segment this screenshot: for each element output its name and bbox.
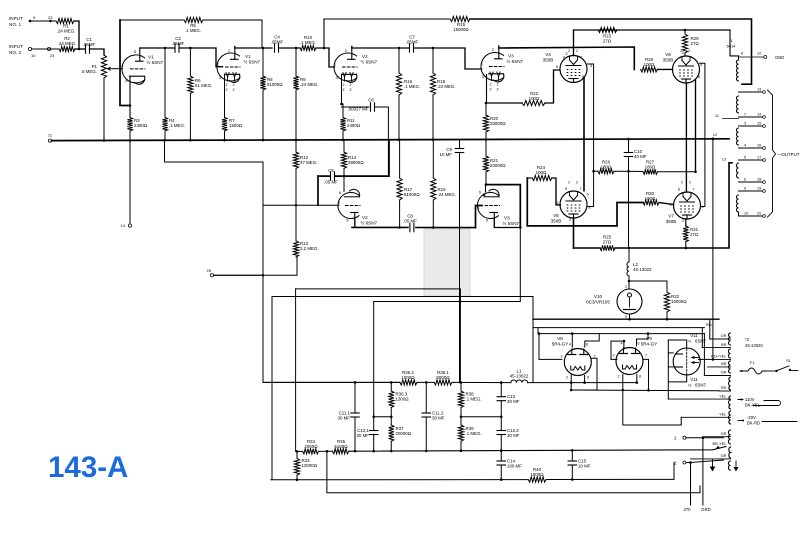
svg-text:V2: V2: [362, 54, 368, 59]
svg-text:RD: RD: [706, 322, 712, 327]
resistor R36.3: [390, 382, 392, 391]
svg-text:V4: V4: [545, 52, 551, 57]
wire C4 to R10: [279, 47, 300, 49]
svg-text:V2: V2: [362, 215, 368, 220]
wire bus2 left: [271, 479, 528, 481]
wire V8 pin6 up: [585, 334, 599, 347]
svg-text:51000Ω: 51000Ω: [404, 192, 420, 197]
svg-text:4: 4: [477, 206, 479, 210]
svg-text:100Ω: 100Ω: [645, 196, 656, 201]
svg-text:8: 8: [698, 75, 700, 79]
svg-text:3: 3: [613, 354, 615, 358]
node R8 top: [262, 47, 265, 50]
resistor R35: [333, 449, 349, 454]
capacitor C1: [85, 45, 87, 53]
wire R36.2-R36.1: [417, 381, 434, 383]
svg-text:13: 13: [722, 158, 726, 162]
wire C5 horizontal: [318, 175, 330, 177]
wire V11 cathode right: [699, 358, 714, 360]
wire term2a: [686, 437, 724, 439]
svg-text:½ 6SN7: ½ 6SN7: [503, 220, 520, 226]
bus junction dots: [103, 139, 106, 142]
capacitor C10: [624, 152, 632, 154]
svg-text:350B: 350B: [551, 219, 562, 224]
vacuum tube V10: [617, 289, 642, 314]
wire C12.2 down: [500, 435, 502, 451]
wire to R32: [629, 281, 667, 292]
terminal 25: [210, 274, 213, 277]
vacuum tube V4: [560, 56, 587, 83]
wire V11 stub1: [668, 352, 673, 354]
P1 wiper arrow: [108, 67, 113, 70]
node 571 390: [570, 389, 573, 392]
svg-text:Z: Z: [232, 88, 234, 92]
terminal 2a: [683, 436, 686, 439]
wire psu outer left: [532, 319, 534, 382]
wire y319 line: [533, 318, 719, 320]
node R17 bottom: [398, 226, 401, 229]
wire P1 wiper to V1 grid: [113, 68, 123, 70]
node 355 382: [354, 381, 357, 384]
wire y302 feeder: [373, 302, 375, 415]
svg-text:51000Ω: 51000Ω: [267, 82, 283, 87]
svg-text:.05MF: .05MF: [406, 40, 419, 45]
svg-text:8: 8: [565, 187, 567, 191]
svg-text:½ 6SN7: ½ 6SN7: [361, 59, 378, 65]
svg-text:3: 3: [744, 122, 746, 126]
resistor R29: [684, 30, 686, 34]
wire R3 to bus: [129, 131, 131, 141]
svg-text:2400Ω: 2400Ω: [347, 123, 360, 128]
svg-text:10: 10: [31, 53, 36, 58]
svg-text:2: 2: [566, 376, 568, 380]
wire y30 line: [574, 29, 731, 31]
wire y327 line: [533, 327, 704, 329]
svg-text:5: 5: [134, 50, 136, 54]
svg-text:2: 2: [618, 375, 620, 379]
svg-text:5: 5: [625, 315, 627, 319]
svg-text:5100Ω: 5100Ω: [334, 444, 347, 449]
svg-text:GND: GND: [775, 55, 784, 60]
wire 461-501 link: [461, 416, 501, 418]
capacitor C9 column: [459, 141, 461, 149]
node V3b cathode: [483, 194, 486, 197]
vacuum tube V3 lower half: [477, 189, 499, 219]
node C6 tap: [340, 103, 343, 106]
svg-text:40 MF: 40 MF: [634, 154, 647, 159]
wire psu second top: [537, 328, 539, 334]
svg-text:C5: C5: [328, 168, 334, 173]
svg-text:2: 2: [226, 83, 228, 87]
wire V1b cathode down: [224, 74, 226, 117]
capacitor C6: [370, 103, 372, 111]
wire C7 to V3a grid: [414, 48, 482, 69]
svg-text:18: 18: [757, 178, 761, 182]
svg-text:30 MF: 30 MF: [338, 416, 351, 421]
node L2 bottom: [628, 280, 631, 283]
svg-text:3: 3: [219, 76, 221, 80]
svg-text:5: 5: [486, 219, 488, 223]
svg-text:1000Ω: 1000Ω: [401, 375, 414, 380]
svg-text:½ 6SN7: ½ 6SN7: [244, 59, 261, 65]
wire C5 to riser: [335, 141, 389, 177]
svg-text:2: 2: [689, 181, 691, 185]
node rdyel: [712, 358, 715, 361]
svg-text:OR: OR: [721, 370, 727, 375]
wire R26-R27: [614, 170, 643, 172]
wire cathode to C6: [342, 106, 370, 108]
node x263 275: [262, 274, 265, 277]
svg-text:F1: F1: [750, 360, 755, 365]
node R16 top: [398, 47, 401, 50]
node 539 333: [538, 332, 541, 335]
vacuum tube V5: [560, 191, 587, 218]
wire R24 riser: [527, 178, 643, 226]
node 648 390: [647, 389, 650, 392]
wire R2 to C1: [75, 48, 85, 50]
resistor R20: [485, 103, 487, 115]
node V3a cathode R20: [485, 102, 488, 105]
svg-text:.24 MEG.: .24 MEG.: [58, 41, 77, 46]
svg-text:.1 MEG.: .1 MEG.: [466, 431, 482, 436]
svg-text:2: 2: [497, 83, 499, 87]
svg-text:6SN7: 6SN7: [695, 383, 707, 388]
resistor R38: [460, 383, 462, 392]
svg-text:39000Ω: 39000Ω: [348, 160, 364, 165]
svg-text:V7: V7: [668, 214, 674, 219]
svg-text:5014: 5014: [727, 44, 737, 49]
resistor R30: [643, 200, 659, 205]
resistor R31: [685, 219, 687, 226]
svg-text:5: 5: [346, 219, 348, 223]
svg-text:350B: 350B: [543, 58, 554, 63]
resistor R12: [295, 141, 297, 152]
wire V2a cathode down: [341, 74, 343, 104]
svg-text:BR: BR: [721, 361, 727, 366]
resistor R34: [303, 449, 319, 454]
svg-text:2: 2: [681, 181, 683, 185]
svg-text:30 MF: 30 MF: [357, 433, 370, 438]
svg-text:8: 8: [587, 376, 589, 380]
svg-text:2: 2: [228, 49, 230, 53]
svg-text:3: 3: [561, 355, 563, 359]
svg-text:100Ω: 100Ω: [529, 96, 540, 101]
svg-text:27Ω: 27Ω: [690, 232, 698, 237]
svg-text:.1 MEG.: .1 MEG.: [404, 84, 420, 89]
svg-text:V10: V10: [594, 294, 603, 299]
svg-text:V1: V1: [245, 54, 251, 59]
svg-text:4: 4: [702, 205, 704, 209]
inductor L1: [511, 380, 528, 383]
wire C10 down: [628, 157, 630, 249]
svg-text:.24 MEG.: .24 MEG.: [300, 82, 319, 87]
vacuum tube V11: [673, 348, 700, 375]
svg-text:20: 20: [757, 212, 761, 216]
svg-text:.5 MEG.: .5 MEG.: [81, 69, 97, 74]
T1 winding ends: [738, 56, 740, 60]
svg-text:9: 9: [744, 187, 746, 191]
node cathode junction: [129, 104, 132, 107]
vacuum tube V9: [616, 348, 643, 375]
resistor R36.1: [434, 380, 452, 385]
wire P1 bottom to bus: [103, 78, 105, 141]
capacitor C12.1: [370, 430, 378, 432]
svg-text:7: 7: [580, 56, 582, 60]
T1 tap 8 line: [739, 56, 764, 58]
resistor R7: [222, 118, 227, 132]
svg-text:12000Ω: 12000Ω: [302, 463, 318, 468]
node R19 bottom: [432, 226, 435, 229]
svg-text:.05 MF: .05 MF: [324, 180, 338, 185]
wire R26 lead: [594, 170, 598, 172]
svg-text:6: 6: [339, 191, 341, 195]
node feedback R15 join: [323, 47, 326, 50]
vacuum tube V8: [564, 349, 591, 376]
svg-text:½ 6SN7: ½ 6SN7: [361, 220, 378, 226]
svg-text:INPUT: INPUT: [9, 16, 23, 21]
wire C1 to P1: [90, 49, 105, 55]
potentiometer P1: [101, 55, 106, 78]
node C15 bottom: [571, 478, 574, 481]
capacitor C12.2: [497, 430, 505, 432]
svg-text:NO. 1: NO. 1: [9, 22, 21, 27]
svg-text:2400Ω: 2400Ω: [134, 123, 147, 128]
node 426 382: [425, 381, 428, 384]
wire V3b cathode up: [485, 186, 487, 192]
svg-text:6: 6: [587, 193, 589, 197]
T1 output bracket: [768, 90, 776, 217]
svg-text:45-13022: 45-13022: [510, 374, 529, 379]
wire x295 column: [295, 289, 297, 452]
resistor R27: [643, 169, 658, 174]
svg-text:110V: 110V: [745, 397, 755, 402]
svg-text:4: 4: [589, 206, 591, 210]
svg-text:20000Ω: 20000Ω: [396, 431, 412, 436]
wire x702 down: [702, 438, 704, 505]
wire V1b plate line: [235, 47, 272, 49]
capacitor C11.1: [351, 412, 359, 414]
resistor R21: [483, 156, 488, 172]
wire R8 to bus and below: [262, 90, 264, 141]
wire OR tap riser: [703, 334, 705, 376]
node R14 C5: [343, 175, 346, 178]
svg-text:S1: S1: [786, 358, 792, 363]
svg-text:7: 7: [645, 354, 647, 358]
svg-text:3: 3: [482, 75, 484, 79]
wire input2: [32, 48, 59, 50]
wire bus to 162 line: [165, 141, 264, 162]
wire V1a plate to C2: [140, 47, 174, 49]
svg-text:1300Ω: 1300Ω: [396, 397, 409, 402]
vacuum tube V1 first half: [122, 48, 145, 84]
wire C9 down: [459, 153, 461, 383]
capacitor C15: [568, 460, 576, 462]
svg-text:5R4-GY: 5R4-GY: [552, 342, 569, 347]
ground symbol 2: [735, 461, 737, 467]
svg-text:2000Ω: 2000Ω: [304, 444, 317, 449]
T1 secondary taps: [739, 91, 763, 93]
wire V5 cathode down: [573, 218, 575, 248]
svg-text:*2: *2: [745, 337, 750, 342]
node R9 top: [295, 47, 298, 50]
capacitor C7: [409, 44, 411, 52]
resistor R6: [189, 48, 191, 76]
fuse F1: [740, 368, 766, 374]
capacitor C13 column: [500, 383, 502, 397]
wire y248 line b: [615, 163, 732, 248]
resistor R3: [127, 118, 132, 132]
switch S1: [766, 370, 775, 372]
svg-text:23: 23: [48, 15, 53, 20]
T1 tap 12 bus: [712, 138, 715, 141]
node R21 bottom: [485, 183, 488, 186]
svg-text:INPUT: INPUT: [9, 44, 23, 49]
svg-text:BR: BR: [721, 342, 727, 347]
svg-text:.1 MEG.: .1 MEG.: [185, 28, 201, 33]
wire L1 right: [528, 382, 637, 384]
wire V9 pin2 down: [622, 375, 624, 391]
wire V8 pin2 down: [570, 375, 572, 390]
svg-text:V8: V8: [557, 336, 563, 341]
svg-text:.1 MEG.: .1 MEG.: [300, 40, 316, 45]
bus1 dots: [354, 450, 357, 453]
wire V1b plate up: [234, 46, 236, 48]
wire V3a cathode down: [486, 75, 488, 104]
wire bus2 right: [546, 463, 674, 480]
node R4 top: [164, 47, 167, 50]
wire terminal14 drop: [129, 141, 131, 224]
wire V9 plate feed: [611, 341, 617, 359]
svg-text:1000Ω: 1000Ω: [530, 472, 543, 477]
svg-text:4: 4: [621, 342, 623, 346]
capacitor C14: [497, 460, 505, 462]
wire node line y185: [486, 185, 520, 228]
capacitor C8: [409, 223, 411, 231]
wire -20V line: [738, 420, 743, 422]
ground symbol 1: [712, 460, 714, 467]
svg-text:BR-YEL: BR-YEL: [712, 441, 727, 446]
svg-text:Z: Z: [225, 88, 227, 92]
svg-text:10 MF: 10 MF: [578, 464, 591, 469]
resistor R39: [458, 425, 463, 441]
resistor R13: [295, 205, 297, 241]
wire V1a cathode down: [129, 76, 131, 117]
svg-text:4: 4: [121, 64, 123, 68]
svg-text:2: 2: [568, 49, 570, 53]
wire 25 line: [214, 257, 297, 275]
junction input: [78, 48, 81, 51]
svg-text:25: 25: [207, 268, 212, 273]
wire V8 pin4 up: [571, 334, 573, 347]
resistor R32: [664, 292, 669, 312]
wire V3b plate down: [494, 220, 520, 228]
vacuum tube V6: [673, 56, 700, 83]
resistor R37: [389, 425, 394, 441]
vacuum tube V2 lower half: [338, 189, 360, 219]
svg-text:2: 2: [568, 181, 570, 185]
resistor R15: [450, 16, 470, 21]
svg-text:4: 4: [590, 64, 592, 68]
svg-text:20000Ω: 20000Ω: [490, 163, 506, 168]
svg-text:6: 6: [586, 343, 588, 347]
capacitor C9: [455, 148, 463, 150]
resistor R9: [295, 48, 297, 76]
svg-text:2: 2: [576, 181, 578, 185]
resistor R26: [598, 169, 614, 174]
svg-text:3: 3: [569, 218, 571, 222]
resistor R19: [432, 141, 434, 178]
wire V9 top h: [611, 340, 624, 342]
wire y227 line: [352, 226, 408, 228]
svg-text:NO. 2: NO. 2: [9, 50, 21, 55]
svg-text:2: 2: [345, 49, 347, 53]
svg-text:1500Ω: 1500Ω: [229, 123, 242, 128]
svg-text:Z: Z: [496, 88, 498, 92]
wire OR tap riser2: [709, 319, 711, 339]
wire 373-391 link: [374, 416, 392, 418]
svg-text:143-A: 143-A: [48, 451, 128, 484]
capacitor C11.2: [422, 412, 430, 414]
wire C11.1 down: [354, 417, 356, 451]
svg-text:27Ω: 27Ω: [691, 41, 699, 46]
node 636 382: [636, 381, 639, 384]
wire y275 feeder: [214, 274, 263, 276]
wire R10 to V2a grid: [316, 48, 335, 67]
svg-text:GR: GR: [721, 431, 727, 436]
node 623 341: [623, 340, 626, 343]
wire C15 down: [571, 465, 573, 480]
wire V11 top corner: [668, 340, 686, 348]
svg-text:Z: Z: [342, 88, 344, 92]
svg-text:1: 1: [217, 63, 219, 67]
resistor R11: [340, 118, 345, 132]
svg-text:BK-RD: BK-RD: [747, 421, 760, 426]
wire V3a plate line to R28: [499, 47, 635, 69]
svg-text:V11: V11: [690, 333, 698, 338]
wire V6 cathode down: [695, 80, 697, 172]
node 572 333: [571, 332, 574, 335]
wire term2b: [686, 462, 691, 464]
svg-text:6: 6: [678, 188, 680, 192]
wire V11 left pins: [667, 340, 669, 399]
node 327 451: [326, 450, 329, 453]
svg-text:3: 3: [682, 51, 684, 55]
wire R5 to plate node: [203, 20, 262, 48]
svg-text:V11: V11: [690, 377, 698, 382]
inductor L2: [628, 248, 630, 262]
svg-text:.05 MF: .05 MF: [403, 219, 417, 224]
wire input1 to junction: [74, 21, 79, 49]
resistor R16: [398, 48, 400, 73]
svg-text:3: 3: [682, 219, 684, 223]
resistor R28: [641, 67, 658, 72]
node 501 417: [500, 415, 503, 418]
svg-text:V6: V6: [665, 52, 671, 57]
wire y289 feeder: [296, 289, 461, 383]
svg-text:V1: V1: [148, 55, 154, 60]
wire bus1: [297, 450, 303, 452]
node L2 top: [628, 247, 631, 250]
svg-text:BK-YEL: BK-YEL: [745, 403, 761, 408]
resistor R40: [528, 477, 546, 482]
vacuum tube V1 second half: [217, 47, 240, 93]
wire bus3: [327, 451, 700, 493]
node brtap: [717, 446, 720, 449]
svg-text:.24 MEG.: .24 MEG.: [437, 84, 456, 89]
svg-text:14: 14: [757, 113, 761, 117]
wire x622 down to 425: [623, 390, 681, 425]
wire top line left: [324, 18, 450, 20]
